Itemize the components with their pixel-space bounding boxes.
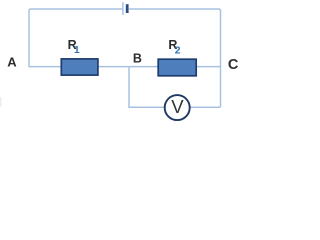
svg-text:2: 2 xyxy=(175,44,181,56)
svg-text:C: C xyxy=(228,57,239,73)
svg-text:V: V xyxy=(171,96,184,117)
voltmeter V circle xyxy=(165,95,190,120)
resistor R2 xyxy=(158,59,196,76)
wire: battery right to top-right corner and down right side xyxy=(129,9,221,107)
battery B1 thin plate xyxy=(122,2,124,15)
svg-text:B: B xyxy=(133,51,142,65)
svg-text:1: 1 xyxy=(74,44,80,56)
battery B1 thick plate xyxy=(126,4,129,13)
wire: node B vertical drop xyxy=(128,67,130,108)
resistor R1 xyxy=(61,59,98,75)
edge artifact xyxy=(0,97,1,107)
wire: main horizontal A-B-C xyxy=(29,66,221,68)
wire: left vertical + top-left horizontal to battery xyxy=(29,9,122,67)
svg-text:A: A xyxy=(7,54,17,69)
wire: bottom voltmeter branch xyxy=(128,106,220,108)
